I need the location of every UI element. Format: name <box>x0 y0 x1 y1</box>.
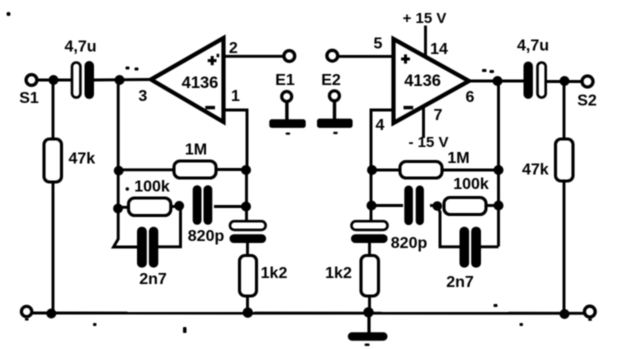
power -15V pin 7 <box>408 105 448 151</box>
node 820p/100k junction right half <box>433 201 443 211</box>
wire C1 to op-amp <box>94 78 151 81</box>
op-amp U1b 4136 <box>374 36 475 135</box>
terminal S1 <box>26 75 37 86</box>
svg-text:6: 6 <box>466 89 475 106</box>
terminal output left <box>284 51 295 62</box>
wire pin2 output <box>224 55 285 58</box>
wire pin4 <box>371 110 394 170</box>
resistor R7 100k <box>444 176 499 215</box>
node pin6 junction <box>493 76 503 86</box>
speck right of pin6 b <box>490 70 495 73</box>
node rail/1k2 left junction <box>243 307 253 317</box>
wire to pin5 <box>339 55 394 58</box>
terminal E2 <box>317 72 353 134</box>
svg-text:S2: S2 <box>577 93 597 110</box>
node rail/1M junction <box>114 166 124 176</box>
svg-text:820p: 820p <box>391 235 428 252</box>
wire mid rail pin1 down <box>245 168 248 222</box>
node 1M right junction <box>241 165 251 175</box>
terminal bottom left <box>21 306 31 316</box>
capacitor C8 <box>351 221 388 243</box>
wire pin1 <box>224 110 248 170</box>
speck on wire a <box>126 67 130 70</box>
svg-text:820p: 820p <box>188 228 225 245</box>
svg-text:4,7u: 4,7u <box>517 38 549 55</box>
resistor R6 1M <box>371 150 499 178</box>
svg-text:S1: S1 <box>19 90 39 107</box>
bottom rail wire <box>33 312 585 315</box>
svg-text:- 15 V: - 15 V <box>408 134 448 151</box>
svg-text:4136: 4136 <box>404 72 441 90</box>
op-amp U1a 4136 <box>138 38 240 122</box>
svg-text:4,7u: 4,7u <box>64 39 96 56</box>
capacitor C7 2n7 <box>437 206 499 291</box>
node rail/ground junction <box>363 307 373 317</box>
resistor R5 47k <box>522 81 573 314</box>
node 1M left junction right half <box>367 165 377 175</box>
resistor R1 47k <box>44 80 95 313</box>
speck below rail mid <box>93 323 97 326</box>
speck on wire b <box>135 68 139 71</box>
capacitor C5 4,7u <box>517 38 582 99</box>
node 100k/820p junction <box>174 201 184 211</box>
capacitor C4 <box>230 221 267 243</box>
terminal S2 <box>582 76 593 87</box>
svg-text:E2: E2 <box>321 72 341 89</box>
svg-text:2n7: 2n7 <box>446 274 474 291</box>
svg-text:2n7: 2n7 <box>139 271 167 288</box>
svg-text:4136: 4136 <box>182 74 219 92</box>
svg-text:1M: 1M <box>185 142 207 159</box>
wire S1 to C1 <box>37 79 73 82</box>
speck top left <box>7 12 11 16</box>
wire pin6 output <box>469 80 524 83</box>
speck below rail left <box>183 327 187 333</box>
capacitor C2 820p <box>188 185 247 245</box>
svg-text:14: 14 <box>430 41 448 58</box>
node S1/R1 junction <box>49 75 59 85</box>
svg-text:2: 2 <box>229 40 238 57</box>
terminal E1 <box>269 72 305 135</box>
svg-text:+ 15 V: + 15 V <box>403 10 447 27</box>
node S2/47k junction <box>560 76 570 86</box>
capacitor C1 4,7u <box>64 39 96 100</box>
node 100k right junction right half <box>494 201 504 211</box>
svg-text:7: 7 <box>434 107 443 124</box>
svg-text:1k2: 1k2 <box>261 265 288 282</box>
speck right of pin6 a <box>482 69 487 72</box>
svg-text:47k: 47k <box>69 151 96 168</box>
svg-text:1: 1 <box>231 88 240 105</box>
svg-text:3: 3 <box>138 88 147 105</box>
power +15V pin 14 <box>403 10 448 58</box>
speck before 100k <box>126 187 129 190</box>
node rail/100k junction <box>113 204 123 214</box>
capacitor C6 820p <box>371 186 437 253</box>
wire right rail node Y <box>497 81 500 247</box>
node 1M right junction right half <box>494 165 504 175</box>
capacitor C3 2n7 <box>137 207 181 289</box>
svg-text:4: 4 <box>376 117 385 134</box>
svg-text:E1: E1 <box>275 72 295 89</box>
resistor R2 1M <box>118 142 247 179</box>
terminal input right <box>327 50 338 61</box>
svg-text:1k2: 1k2 <box>325 265 352 282</box>
node rail/47k left junction <box>46 309 56 319</box>
speck above rail right <box>494 304 498 307</box>
resistor R3 100k <box>118 179 179 216</box>
node 820p left junction right half <box>367 201 377 211</box>
ground <box>348 313 388 346</box>
terminal bottom right <box>584 306 595 317</box>
speck below rail right <box>520 323 524 326</box>
wire left rail node A <box>114 80 138 247</box>
resistor R4 1k2 <box>240 243 288 314</box>
wire mid rail pin4 down <box>370 168 373 222</box>
svg-text:1M: 1M <box>447 150 469 167</box>
svg-text:100k: 100k <box>134 179 170 196</box>
node A junction <box>115 75 125 85</box>
svg-text:47k: 47k <box>522 162 549 179</box>
resistor R8 1k2 <box>325 243 378 313</box>
svg-text:5: 5 <box>374 36 383 53</box>
node rail/47k right junction <box>560 309 570 319</box>
node 820p right junction <box>241 202 251 212</box>
svg-text:100k: 100k <box>453 176 489 193</box>
